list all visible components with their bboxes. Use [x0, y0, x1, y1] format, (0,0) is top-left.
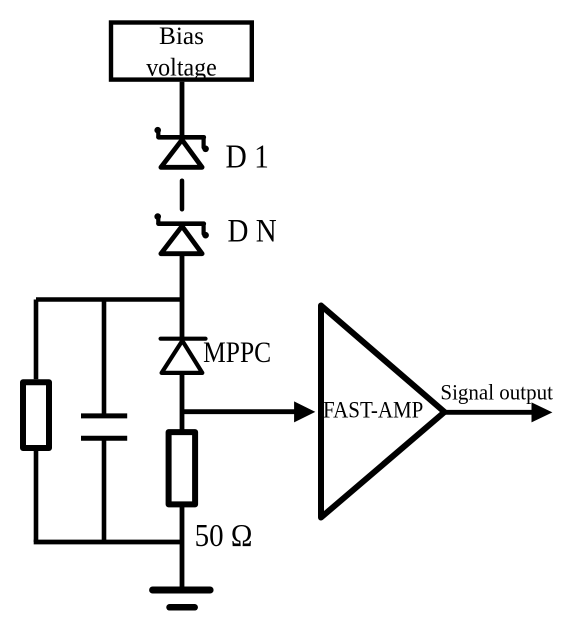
svg-text:D N: D N [228, 212, 277, 249]
svg-text:FAST-AMP: FAST-AMP [323, 396, 423, 422]
svg-text:Bias: Bias [159, 21, 204, 50]
svg-text:MPPC: MPPC [203, 336, 271, 368]
svg-text:D 1: D 1 [226, 138, 269, 175]
svg-text:50 Ω: 50 Ω [195, 518, 253, 553]
svg-text:voltage: voltage [146, 54, 217, 82]
svg-text:Signal output: Signal output [440, 380, 553, 405]
